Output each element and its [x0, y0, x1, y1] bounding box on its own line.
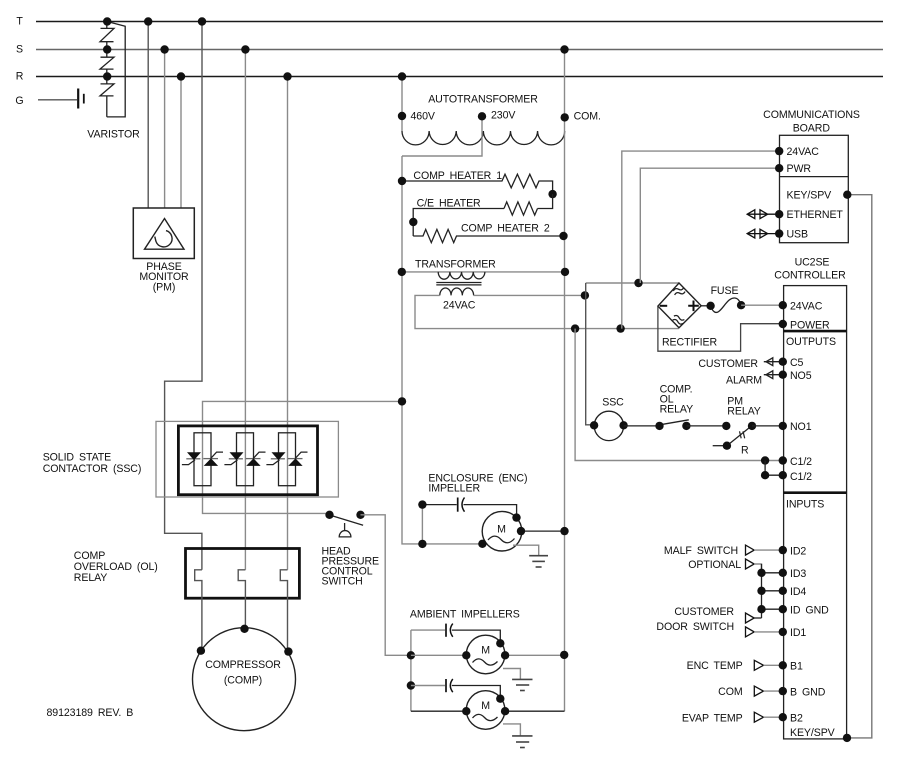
junction S phase	[241, 45, 249, 53]
wire R phase to SSC pole 3	[287, 77, 289, 570]
junction motor1 left	[462, 651, 470, 659]
svg-text:CUSTOMER: CUSTOMER	[698, 358, 758, 370]
pin C1/2 upper	[779, 456, 787, 464]
junction enclosure COM	[560, 527, 568, 535]
junction R-460V	[398, 72, 406, 80]
svg-text:IMPELLER: IMPELLER	[428, 483, 480, 495]
heater C/E wire and resistor	[413, 194, 552, 236]
pin comm PWR	[775, 164, 783, 172]
pin B2	[779, 713, 787, 721]
rectifier plus mark	[688, 301, 699, 312]
junction enclosure motor start	[512, 513, 520, 521]
junction fuse right	[737, 301, 745, 309]
wire 230V tap stub	[402, 116, 482, 156]
inputarrow MALF	[746, 545, 755, 555]
dataarrow USB	[747, 229, 779, 238]
compressor circle	[193, 628, 296, 731]
svg-text:SSC: SSC	[602, 397, 624, 409]
svg-text:ID GND: ID GND	[790, 605, 829, 617]
SSC phase3 module box	[279, 433, 296, 486]
svg-text:COMPRESSOR: COMPRESSOR	[205, 659, 281, 671]
svg-text:COMMUNICATIONS: COMMUNICATIONS	[763, 109, 860, 121]
svg-text:230V: 230V	[491, 110, 516, 122]
varistor chain vertical segments	[106, 22, 108, 117]
head pressure switch diaphragm	[339, 531, 351, 537]
head pressure switch contact	[331, 515, 363, 525]
wire transformer secondary right	[474, 294, 585, 296]
communications board box	[780, 135, 849, 242]
varistor element 1	[100, 28, 114, 41]
rectifier minus mark	[660, 305, 667, 307]
pin ID1	[779, 628, 787, 636]
rectifier AC mark bottom	[672, 315, 685, 325]
svg-text:M: M	[497, 523, 506, 535]
junction S-COM	[560, 45, 568, 53]
inputarrow COM	[754, 686, 763, 696]
junction 24VAC wire C1/2 branch	[571, 324, 579, 332]
wire S to COM tap	[564, 50, 566, 132]
junction transformer right	[561, 268, 569, 276]
svg-text:24VAC: 24VAC	[443, 300, 476, 312]
inputarrow OPTIONAL	[746, 559, 755, 569]
svg-text:ID2: ID2	[790, 546, 806, 558]
communications board divider	[780, 176, 849, 178]
capacitor ambient cap 2	[411, 679, 500, 699]
svg-text:24VAC: 24VAC	[790, 301, 823, 313]
outputarrow NO5	[764, 374, 783, 376]
svg-text:COMP HEATER 1: COMP HEATER 1	[413, 170, 502, 182]
phase monitor box	[133, 208, 194, 259]
junction compressor right	[284, 647, 292, 655]
svg-text:ID1: ID1	[790, 627, 806, 639]
wire T phase to OL pole 1	[165, 22, 202, 570]
svg-text:(COMP): (COMP)	[224, 675, 262, 687]
junction secondary right to AC1 vertical	[581, 291, 589, 299]
junction COM tap	[561, 113, 569, 121]
wire SSC coil to OL contact	[624, 425, 660, 427]
heater COMP HEATER 2 wire and resistor	[413, 229, 563, 242]
wire R to 460V tap	[401, 77, 403, 132]
svg-text:VARISTOR: VARISTOR	[87, 129, 140, 141]
heater COMP HEATER 1 wire and resistor	[402, 174, 553, 194]
pin ID4	[779, 587, 787, 595]
ground G electrode bars	[77, 89, 79, 109]
autotransformer winding	[402, 131, 565, 145]
inputarrow EVAP TEMP	[754, 712, 763, 722]
UC2SE controller box	[784, 286, 847, 739]
wire S bus	[36, 49, 883, 51]
svg-text:MALF SWITCH: MALF SWITCH	[664, 545, 738, 557]
svg-text:COM.: COM.	[574, 111, 601, 123]
pin C5	[779, 358, 787, 366]
svg-text:ENC TEMP: ENC TEMP	[687, 660, 743, 672]
junction R phase	[283, 72, 291, 80]
wire ID bus	[761, 564, 763, 618]
svg-text:89123189 REV. B: 89123189 REV. B	[47, 707, 134, 719]
junction heater rail SSC link	[398, 397, 406, 405]
SSC inner box	[178, 426, 317, 495]
wire C1/2 second link	[765, 461, 782, 476]
junction T phase	[198, 17, 206, 25]
junction motor2 left	[462, 707, 470, 715]
varistor element 2	[100, 57, 114, 69]
wire COM rail	[564, 131, 566, 711]
wire comm 24VAC	[622, 151, 779, 329]
wire OL contact to PM contact	[686, 425, 726, 427]
wire rectifier plus to fuse	[701, 305, 710, 307]
transformer secondary winding	[440, 288, 474, 295]
svg-text:B GND: B GND	[790, 687, 826, 699]
wire C1/2 feed	[575, 329, 782, 461]
contact OL relay	[661, 420, 689, 425]
svg-text:RELAY: RELAY	[660, 404, 693, 416]
wire T to phase monitor	[147, 22, 149, 208]
pin B GND	[779, 687, 787, 695]
wire optional to ID bus	[754, 564, 761, 573]
svg-text:BOARD: BOARD	[793, 123, 831, 135]
svg-text:C1/2: C1/2	[790, 471, 812, 483]
svg-text:AMBIENT IMPELLERS: AMBIENT IMPELLERS	[410, 609, 520, 621]
wire enclosure cap left drop	[421, 505, 423, 544]
svg-text:M: M	[481, 645, 490, 657]
junction fuse left	[706, 302, 714, 310]
svg-text:OUTPUTS: OUTPUTS	[786, 336, 836, 348]
junction S drop	[160, 45, 168, 53]
thyristor pair module 2	[224, 452, 265, 466]
svg-text:R: R	[16, 71, 24, 83]
wire ID4 link	[762, 590, 783, 592]
svg-text:COM: COM	[718, 686, 742, 698]
wire rectifier minus to POWER pin	[658, 306, 783, 351]
junction T drop	[144, 17, 152, 25]
svg-text:NO5: NO5	[790, 370, 812, 382]
SSC outer enclosure box	[156, 421, 338, 497]
motor ambient impeller 2	[466, 691, 505, 730]
svg-text:TRANSFORMER: TRANSFORMER	[415, 259, 496, 271]
wire AC1 vertical to SSC coil	[586, 283, 594, 425]
junction enclosure cap left top	[418, 500, 426, 508]
OL relay box	[186, 549, 300, 599]
controller divider outputs	[784, 330, 847, 333]
svg-text:CUSTOMER: CUSTOMER	[674, 606, 734, 618]
junction motor2 right	[501, 707, 509, 715]
fuse element	[711, 298, 742, 312]
junction compressor top	[240, 625, 248, 633]
junction enclosure cap left bottom	[418, 540, 426, 548]
svg-text:RELAY: RELAY	[727, 406, 760, 418]
svg-text:INPUTS: INPUTS	[786, 499, 824, 511]
wire ambient left rail	[410, 630, 412, 711]
svg-text:RELAY: RELAY	[74, 572, 107, 584]
wire comm PWR	[640, 168, 779, 283]
junction C/E-heater2	[409, 218, 417, 226]
wire PM contact to NO1	[752, 425, 783, 427]
junction ambient motor1 start	[496, 639, 504, 647]
inputarrow ENC TEMP	[754, 660, 763, 670]
junction R drop	[177, 72, 185, 80]
svg-text:SWITCH: SWITCH	[322, 576, 363, 588]
inputarrow DOOR SWITCH	[746, 627, 755, 637]
svg-text:C5: C5	[790, 357, 804, 369]
wire motor1 ground lead	[503, 669, 520, 680]
capacitor ambient cap 1	[411, 624, 500, 644]
wire motor2 ground lead	[503, 724, 520, 736]
svg-text:RECTIFIER: RECTIFIER	[662, 337, 717, 349]
wire enclosure motor ground lead	[513, 545, 539, 556]
motor ambient impeller 1	[466, 635, 505, 674]
transformer primary top wire	[402, 271, 565, 273]
svg-text:USB: USB	[787, 229, 809, 241]
svg-text:G: G	[15, 95, 23, 107]
wire enclosure motor to COM rail	[521, 530, 565, 532]
wire R bus	[36, 76, 883, 78]
transformer primary winding	[438, 272, 485, 279]
thyristor pair module 3	[266, 452, 307, 466]
svg-text:B2: B2	[790, 713, 803, 725]
wire S phase to SSC pole 2	[244, 50, 246, 570]
wire heater rail to SSC pole1 top	[203, 401, 403, 432]
svg-text:C/E HEATER: C/E HEATER	[417, 198, 481, 210]
svg-text:B1: B1	[790, 661, 803, 673]
junction SSC coil left	[590, 421, 598, 429]
thyristor pair module 1	[182, 452, 223, 466]
junction motor1 right	[501, 651, 509, 659]
svg-text:24VAC: 24VAC	[787, 146, 820, 158]
wire ambient row1 right	[505, 654, 564, 656]
motor enclosure impeller M	[482, 511, 522, 551]
junction enclosure motor right	[517, 527, 525, 535]
junction compressor left	[197, 647, 205, 655]
svg-text:ETHERNET: ETHERNET	[787, 209, 844, 221]
junction ambient COM	[560, 651, 568, 659]
junction 24VAC wire comm branch	[616, 324, 624, 332]
svg-text:SOLID STATE: SOLID STATE	[43, 452, 111, 464]
pin 24VAC	[779, 301, 787, 309]
coil SSC circle	[594, 411, 623, 440]
pin ID GND	[779, 605, 787, 613]
wire G lead	[38, 99, 77, 101]
junction heater1 left	[398, 177, 406, 185]
wire AC1 rectifier top feed	[586, 282, 679, 284]
pin comm ETHERNET	[775, 210, 783, 218]
svg-text:CONTROLLER: CONTROLLER	[774, 270, 846, 282]
transformer core	[436, 282, 481, 284]
junction 460V tap	[398, 112, 406, 120]
svg-text:C1/2: C1/2	[790, 456, 812, 468]
rectifier AC mark top	[673, 286, 686, 296]
svg-text:R: R	[741, 445, 749, 457]
svg-text:M: M	[481, 700, 490, 712]
svg-text:DOOR SWITCH: DOOR SWITCH	[656, 621, 734, 633]
pin ID3	[779, 569, 787, 577]
wire R to phase monitor	[180, 77, 182, 208]
varistor element 3	[100, 84, 114, 96]
wire ID3 link	[762, 572, 783, 574]
svg-text:ALARM: ALARM	[726, 375, 762, 387]
junction transformer left	[398, 268, 406, 276]
dataarrow ETHERNET	[747, 210, 779, 219]
wire S to phase monitor	[164, 50, 166, 208]
OL heater jog pole2	[238, 570, 245, 629]
junction enclosure motor bottom	[478, 540, 486, 548]
wire comm KEY/SPV down right side	[847, 195, 872, 738]
junction varistor-R	[103, 72, 111, 80]
wire SSC pole1 inside and to head pressure switch	[203, 433, 330, 514]
contact PM relay changeover	[713, 422, 757, 457]
outputarrow C5	[764, 361, 783, 363]
junction 230V tap	[478, 112, 486, 120]
svg-text:POWER: POWER	[790, 320, 830, 332]
pin C1/2 lower	[779, 471, 787, 479]
head pressure switch actuator stem	[344, 523, 346, 531]
wire head pressure switch to ambient impellers	[361, 515, 411, 656]
ground enclosure motor	[529, 556, 548, 567]
pin comm USB	[775, 229, 783, 237]
junction head pressure right	[356, 511, 364, 519]
junction heater2-COM	[559, 232, 567, 240]
wire ambient bottom left	[411, 710, 466, 712]
junction ambient rail feed	[407, 651, 415, 659]
wire transformer secondary left to rectifier AC2	[415, 295, 679, 328]
svg-text:AUTOTRANSFORMER: AUTOTRANSFORMER	[428, 94, 538, 106]
junction PWR-AC1	[634, 279, 642, 287]
svg-text:OPTIONAL: OPTIONAL	[688, 559, 741, 571]
svg-text:ID3: ID3	[790, 568, 806, 580]
OL heater jog pole3	[280, 570, 287, 652]
pin comm 24VAC	[775, 147, 783, 155]
OL heater jog pole1	[195, 570, 202, 651]
wire varistor bypass loop	[107, 22, 125, 117]
phase monitor rotation arrow	[155, 231, 172, 247]
svg-text:ID4: ID4	[790, 586, 806, 598]
junction varistor-T	[103, 17, 111, 25]
wire fuse to controller 24VAC	[741, 304, 782, 306]
pin KEY/SPV controller	[843, 734, 851, 742]
capacitor enclosure run cap	[422, 498, 516, 518]
controller divider inputs	[784, 491, 847, 494]
pin B1	[779, 661, 787, 669]
pin ID2	[779, 546, 787, 554]
svg-text:460V: 460V	[411, 111, 436, 123]
wire ambient row1 left	[411, 654, 466, 656]
svg-text:EVAP TEMP: EVAP TEMP	[682, 713, 743, 725]
svg-text:KEY/SPV: KEY/SPV	[787, 190, 833, 202]
pin comm KEY/SPV	[843, 191, 851, 199]
junction SSC coil right	[619, 421, 627, 429]
junction ambient rail cap2	[407, 681, 415, 689]
SSC phase2 module box	[237, 433, 254, 486]
junction heater1/heater-CE	[548, 190, 556, 198]
phase monitor triangle symbol	[145, 219, 185, 250]
svg-text:FUSE: FUSE	[711, 285, 739, 297]
svg-text:PWR: PWR	[787, 163, 812, 175]
ground ambient motor 1	[512, 679, 532, 690]
svg-text:UC2SE: UC2SE	[795, 257, 830, 269]
wire ID GND link	[762, 608, 783, 610]
wire ambient bottom right to COM	[505, 710, 564, 712]
junction C1/2 branch	[761, 456, 769, 464]
svg-text:KEY/SPV: KEY/SPV	[790, 727, 836, 739]
pin NO5	[779, 371, 787, 379]
inputarrow CUSTOMER	[746, 613, 755, 623]
svg-text:NO1: NO1	[790, 421, 812, 433]
junction varistor-S	[103, 45, 111, 53]
svg-text:COMP HEATER 2: COMP HEATER 2	[461, 223, 550, 235]
rectifier bridge diamond	[658, 283, 701, 328]
wire customer to ID bus	[754, 617, 761, 619]
wire left heater rail 230V down	[402, 156, 482, 544]
svg-text:T: T	[16, 16, 23, 28]
junction C1/2 lower left	[761, 471, 769, 479]
ground ambient motor 2	[512, 736, 532, 748]
svg-text:(PM): (PM)	[153, 282, 176, 294]
pin POWER	[779, 320, 787, 328]
svg-text:S: S	[16, 44, 23, 56]
SSC phase1 module box	[194, 433, 211, 486]
pin NO1	[779, 422, 787, 430]
junction ambient motor2 start	[496, 695, 504, 703]
wire T bus	[36, 21, 883, 23]
svg-text:CONTACTOR (SSC): CONTACTOR (SSC)	[43, 463, 142, 475]
junction head pressure left	[325, 511, 333, 519]
